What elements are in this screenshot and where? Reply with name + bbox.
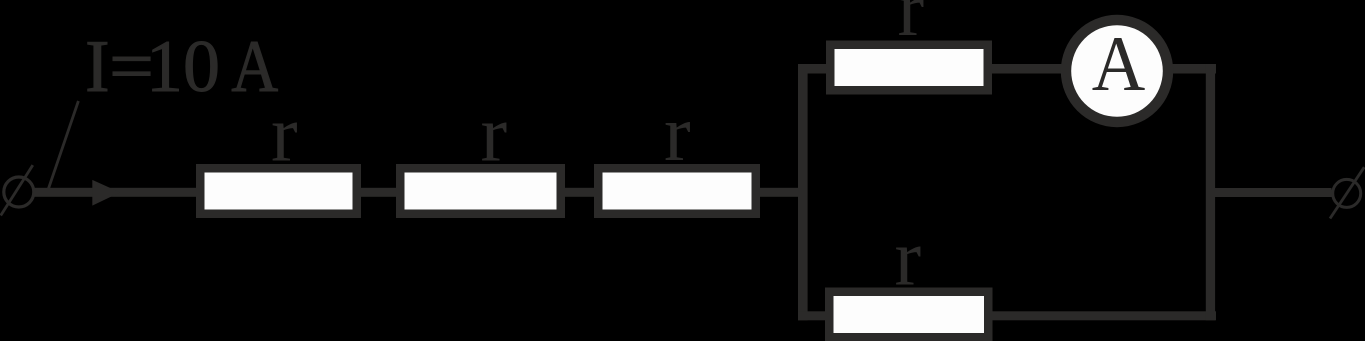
terminal right slash <box>1330 167 1364 218</box>
terminal right (output) <box>1333 179 1361 207</box>
svg-text:r: r <box>664 90 691 178</box>
resistor R5 (bottom branch) <box>825 288 993 341</box>
terminal left (input) <box>4 177 34 207</box>
current direction arrow <box>92 180 120 206</box>
svg-text:10: 10 <box>146 26 220 108</box>
wire bottom branch <box>798 311 1216 320</box>
svg-text:r: r <box>898 0 925 53</box>
terminal left slash <box>1 165 33 215</box>
resistor R1 <box>196 164 361 218</box>
wire main horizontal <box>33 188 805 197</box>
svg-text:r: r <box>481 91 508 179</box>
wire output <box>1210 188 1332 197</box>
svg-text:I: I <box>85 26 110 108</box>
resistor R3 <box>594 164 760 218</box>
node right bus (parallel junction) <box>1206 64 1215 320</box>
svg-text:r: r <box>895 215 922 303</box>
node left bus (parallel junction) <box>798 64 808 320</box>
svg-text:A: A <box>1092 20 1146 107</box>
wire top branch <box>798 64 1216 74</box>
ammeter A <box>1061 15 1173 127</box>
resistor R4 (top branch) <box>826 41 992 95</box>
svg-text:r: r <box>271 90 298 178</box>
resistor R2 <box>396 164 565 218</box>
leader line for I=10 A <box>48 101 78 190</box>
